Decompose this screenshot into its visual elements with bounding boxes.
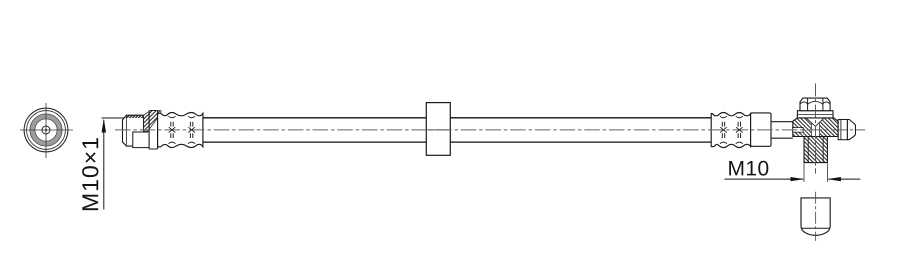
right crimp sleeve bbox=[751, 113, 771, 146]
banjo seat hatch wedges bbox=[806, 119, 811, 137]
nut (left fitting) bbox=[123, 115, 144, 146]
banjo hatch left bbox=[793, 118, 807, 137]
main hose centerline bbox=[115, 129, 865, 131]
threaded stem bbox=[804, 137, 827, 163]
leader vertical line bbox=[103, 120, 105, 210]
right bellows (grommet) bbox=[711, 113, 750, 148]
nut bore step bbox=[133, 132, 158, 148]
clamp block bbox=[426, 103, 450, 156]
banjo seat V bbox=[806, 118, 824, 126]
centerline segment through clamp bbox=[425, 129, 452, 131]
end view outer circle bbox=[24, 108, 68, 152]
ferrule sleeve bbox=[149, 111, 158, 150]
hose segment 2 bbox=[450, 117, 711, 119]
grommet mold marks right 1 bbox=[720, 116, 727, 144]
hatch: nut section band bbox=[124, 115, 143, 118]
leader arrowhead bbox=[102, 119, 107, 133]
fitting end view crosshair centerlines bbox=[20, 103, 73, 158]
dimension extension lines bbox=[803, 164, 805, 183]
hose segment 1 bbox=[203, 117, 426, 119]
cone nipple bbox=[847, 120, 855, 140]
hatch: crimp section band bbox=[144, 111, 162, 132]
banjo bore band bbox=[793, 128, 803, 133]
left bellows (grommet) bbox=[158, 113, 203, 148]
leader line to thread M10x1 bbox=[102, 117, 144, 119]
label M10 bbox=[729, 161, 768, 176]
groove collar bbox=[838, 120, 847, 140]
banjo body bbox=[793, 118, 838, 137]
end view thread ring (gray annulus) bbox=[32, 116, 59, 143]
grommet mold marks right 2 bbox=[736, 116, 743, 144]
pipe to banjo bbox=[771, 121, 793, 123]
label M10x1 bbox=[82, 138, 98, 210]
grommet mold marks left 2 bbox=[188, 116, 195, 144]
banjo bolt washer bbox=[797, 111, 833, 118]
protective cap cup bbox=[801, 198, 830, 236]
grommet mold marks left 1 bbox=[168, 116, 175, 144]
end view center hole bbox=[42, 126, 50, 134]
banjo hatch right bbox=[824, 118, 838, 137]
dimension line M10 bbox=[725, 178, 804, 180]
banjo bolt hex head bbox=[800, 98, 830, 111]
end view chamfer circle bbox=[27, 111, 66, 150]
cap centerline bbox=[815, 192, 817, 241]
banjo bolt centerline bbox=[815, 83, 817, 173]
